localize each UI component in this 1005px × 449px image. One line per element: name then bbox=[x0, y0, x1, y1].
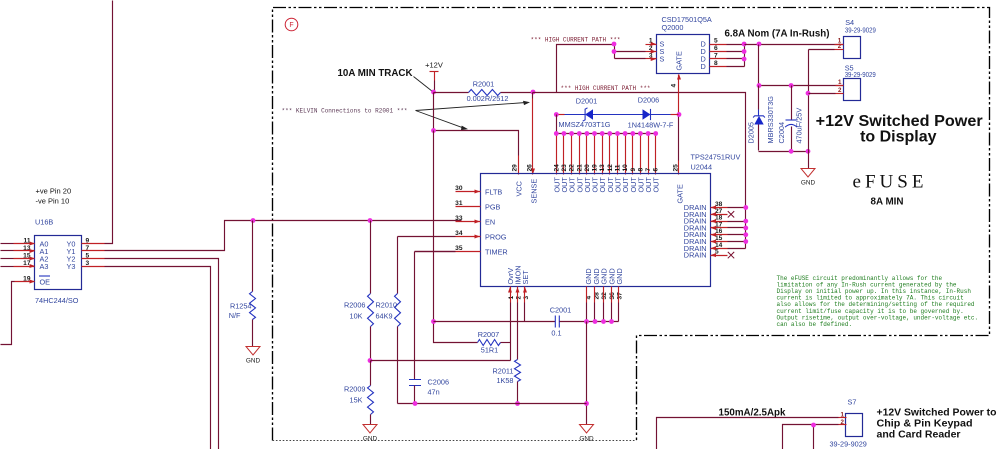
wire OUT bus rail bbox=[557, 115, 656, 134]
wire gate down to U2044 GATE pin bbox=[678, 115, 680, 175]
connector S4 39-29-9029 bbox=[838, 18, 876, 59]
wire high-current path R2001 to Q2000 drain bus riser bbox=[533, 93, 746, 249]
wire +12V kelvin down to R2007 / C2001 node bbox=[433, 131, 435, 322]
resistor R1254 N/F bbox=[229, 221, 256, 347]
svg-text:0.1: 0.1 bbox=[551, 329, 561, 338]
U2044 bottom pin numbers 1 2 3 bbox=[508, 296, 530, 300]
U2044 DRAIN pin numbers 38 27 18 17 16 15 14 5 bbox=[715, 201, 723, 256]
svg-text:29: 29 bbox=[512, 164, 519, 172]
svg-text:GND: GND bbox=[579, 436, 594, 443]
svg-text:FLTB: FLTB bbox=[485, 188, 502, 197]
wire OvrV pin down to R2007/R2006 node bbox=[510, 303, 512, 361]
wire inputs A0-A3 to left edge bbox=[1, 244, 14, 267]
U16B pin names bbox=[39, 239, 75, 286]
junction R2001/SENSE bbox=[531, 90, 536, 95]
wire switched 12V down to cap rail bbox=[758, 45, 760, 86]
wire S pins cluster to high-current vertical bbox=[557, 45, 646, 93]
wire GND rail down to ground bbox=[586, 322, 588, 425]
junction rail/D2005 bbox=[757, 83, 762, 88]
wire sense tap down to SENSE pin bbox=[531, 93, 535, 175]
IC U2044 TPS24751RUV body bbox=[481, 153, 741, 287]
svg-text:GND: GND bbox=[363, 436, 378, 443]
wire S4/S5 return to ground bbox=[808, 50, 810, 169]
svg-text:8: 8 bbox=[637, 168, 644, 172]
svg-text:470uF/25V: 470uF/25V bbox=[795, 108, 804, 144]
wire OE pin 19 to left edge bbox=[1, 282, 15, 345]
capacitor C2004 470uF/25V bbox=[777, 86, 804, 151]
wire drain to S4 connector bbox=[745, 44, 844, 46]
svg-text:-ve Pin 10: -ve Pin 10 bbox=[36, 197, 70, 206]
svg-text:37: 37 bbox=[617, 292, 624, 300]
capacitor C2006 47n bbox=[409, 252, 456, 404]
border frame of eFUSE block (dash-dot) bbox=[273, 8, 990, 441]
svg-text:D2001: D2001 bbox=[576, 97, 598, 106]
svg-text:39-29-9029: 39-29-9029 bbox=[845, 70, 876, 79]
no-connect X on DRAIN pin 5 bbox=[728, 252, 734, 258]
U16B output pin numbers 9 7 5 3 bbox=[86, 238, 90, 268]
junction gate/diode clamp bbox=[677, 112, 682, 117]
svg-text:Y3: Y3 bbox=[67, 262, 76, 271]
wire cap bottom rail bbox=[759, 151, 809, 153]
junction +12V/R2001 bbox=[431, 90, 436, 95]
svg-text:EN: EN bbox=[485, 218, 495, 227]
svg-text:R2010: R2010 bbox=[376, 301, 398, 310]
junction R2007/C2001/+12V tap bbox=[431, 319, 436, 324]
ground output section bbox=[801, 169, 815, 178]
svg-text:51R1: 51R1 bbox=[481, 346, 498, 355]
svg-text:2: 2 bbox=[838, 87, 842, 94]
svg-text:DRAIN: DRAIN bbox=[684, 251, 707, 260]
wire Y1 to EN net bbox=[105, 221, 462, 251]
svg-text:11: 11 bbox=[615, 164, 622, 171]
svg-text:R2006: R2006 bbox=[344, 301, 366, 310]
Q2000 pin names S S S GATE D D D D bbox=[660, 40, 706, 72]
wire bottom rail bbox=[398, 403, 587, 405]
U2044 left pin stubs bbox=[456, 190, 481, 252]
wire DRAIN rows to bus bbox=[728, 208, 746, 249]
resistor R2010 64K9 bbox=[376, 237, 401, 404]
capacitor C2001 0.1 bbox=[550, 306, 587, 338]
wire S7 feed bbox=[657, 418, 839, 449]
svg-text:13: 13 bbox=[599, 164, 606, 172]
svg-text:1N4148W-7-F: 1N4148W-7-F bbox=[628, 121, 674, 130]
wire PROG net from R2010 bbox=[398, 236, 456, 238]
junction drain out bbox=[757, 42, 762, 47]
U16B output pin stubs bbox=[82, 244, 105, 267]
svg-text:6.8A Nom (7A In-Rush): 6.8A Nom (7A In-Rush) bbox=[725, 28, 830, 40]
svg-text:R2007: R2007 bbox=[478, 330, 500, 339]
wire IMON pin down to R2011 bbox=[517, 303, 519, 360]
annotation KELVIN Connections to R2001 bbox=[282, 101, 531, 130]
svg-text:Q2000: Q2000 bbox=[662, 23, 684, 32]
Q2000 gate pin stub bbox=[677, 74, 681, 115]
svg-text:47n: 47n bbox=[428, 388, 440, 397]
svg-text:*** HIGH CURRENT PATH ***: *** HIGH CURRENT PATH *** bbox=[561, 85, 651, 92]
U2044 top pin numbers bbox=[512, 164, 680, 172]
wire SET pin down to C2001 bbox=[524, 303, 526, 322]
svg-text:TPS24751RUV: TPS24751RUV bbox=[691, 153, 741, 162]
svg-text:R2009: R2009 bbox=[344, 385, 366, 394]
svg-text:PGB: PGB bbox=[485, 203, 501, 212]
svg-text:GATE: GATE bbox=[675, 51, 684, 70]
svg-text:C2001: C2001 bbox=[550, 306, 572, 315]
resistor R2011 1K58 bbox=[493, 360, 521, 404]
junction rail/C2004 bbox=[789, 83, 794, 88]
junction OUT bus dots bbox=[554, 131, 658, 136]
ground below R1254 bbox=[246, 347, 260, 356]
diode D2001 MMSZ4703T1G (zener) bbox=[559, 97, 611, 130]
svg-text:eFUSE: eFUSE bbox=[853, 172, 924, 193]
svg-text:15K: 15K bbox=[350, 396, 363, 405]
Q2000 drain pin stubs bbox=[710, 45, 727, 67]
svg-text:*** KELVIN Connections to R200: *** KELVIN Connections to R2001 *** bbox=[282, 108, 408, 115]
svg-text:D2006: D2006 bbox=[638, 96, 660, 105]
svg-text:32: 32 bbox=[601, 292, 608, 300]
U2044 DRAIN pin stubs with arrows bbox=[711, 206, 728, 258]
svg-text:21: 21 bbox=[576, 164, 583, 172]
svg-text:1: 1 bbox=[508, 296, 515, 300]
wire S7 pin2 return bbox=[783, 425, 839, 449]
U2044 DRAIN pin names bbox=[684, 203, 707, 260]
resistor R2006 10K bbox=[344, 221, 374, 361]
svg-text:10: 10 bbox=[622, 164, 629, 172]
U2044 GND pin numbers 4 28 32 36 37 bbox=[586, 292, 624, 300]
junction R2011/bottom rail bbox=[515, 401, 520, 406]
svg-text:150mA/2.5Apk: 150mA/2.5Apk bbox=[719, 408, 786, 419]
svg-text:39-29-9029: 39-29-9029 bbox=[830, 440, 867, 449]
junction S7 return bbox=[811, 423, 816, 428]
U2044 top pin names VCC SENSE OUT GATE bbox=[515, 177, 685, 204]
ground below R2009 bbox=[363, 425, 377, 434]
svg-text:S7: S7 bbox=[848, 398, 857, 407]
svg-text:23: 23 bbox=[561, 164, 568, 172]
resistor R2009 15K bbox=[344, 361, 374, 425]
Q2000 drain pin numbers 5 6 7 8 bbox=[714, 38, 718, 68]
svg-text:26: 26 bbox=[527, 164, 534, 172]
junction bottom rail/GND stub bbox=[806, 149, 811, 154]
svg-text:R2011: R2011 bbox=[493, 367, 514, 376]
svg-text:19: 19 bbox=[592, 164, 599, 172]
transistor Q2000 CSD17501Q5A body bbox=[657, 15, 712, 73]
svg-text:U16B: U16B bbox=[35, 218, 53, 227]
svg-text:6: 6 bbox=[653, 168, 660, 172]
wire OUT pin columns bbox=[557, 134, 656, 175]
label 10A MIN TRACK with leader bbox=[338, 67, 433, 92]
junction C2006/bottom rail bbox=[413, 401, 418, 406]
svg-text:*** HIGH CURRENT PATH ***: *** HIGH CURRENT PATH *** bbox=[531, 37, 621, 44]
svg-text:OE: OE bbox=[40, 278, 51, 287]
wire S4 pin2 to return bbox=[809, 49, 835, 51]
U2044 bottom pin stubs bbox=[508, 287, 619, 303]
circle F marker bbox=[285, 18, 298, 31]
svg-text:+12V Switched Power to: +12V Switched Power to bbox=[877, 408, 997, 419]
junction drain riser dots bbox=[742, 42, 747, 62]
svg-text:GND: GND bbox=[615, 268, 624, 284]
svg-text:D2005: D2005 bbox=[747, 122, 756, 144]
svg-text:Chip & Pin Keypad: Chip & Pin Keypad bbox=[877, 419, 973, 430]
svg-text:8A MIN: 8A MIN bbox=[871, 196, 904, 208]
diode D2005 MBRS330T3G bbox=[747, 86, 775, 151]
wire cap top rail to S5 pin 1 bbox=[759, 85, 844, 87]
svg-text:36: 36 bbox=[609, 292, 616, 300]
wire S5 pin2 to return bbox=[809, 93, 836, 95]
svg-text:PROG: PROG bbox=[485, 233, 507, 242]
svg-text:R2001: R2001 bbox=[473, 80, 495, 89]
ground below U2044 GND pins bbox=[580, 425, 594, 434]
junction S cluster 2 bbox=[612, 49, 617, 54]
junction EN/R1254 bbox=[251, 218, 256, 223]
svg-text:C2004: C2004 bbox=[777, 122, 786, 144]
svg-text:S: S bbox=[660, 55, 665, 64]
svg-text:9: 9 bbox=[630, 168, 637, 172]
svg-text:12: 12 bbox=[607, 164, 614, 172]
junction R2006/R2009/wire bbox=[368, 358, 373, 363]
U2044 left pin numbers 30 31 33 34 35 bbox=[455, 185, 463, 252]
svg-text:25: 25 bbox=[673, 164, 680, 172]
wire SET row to C2001 bbox=[434, 321, 556, 323]
Q2000 source pin numbers 1 2 3 bbox=[649, 38, 653, 60]
svg-text:GATE: GATE bbox=[676, 184, 685, 203]
wire gate clamp chain bbox=[557, 114, 679, 116]
svg-text:to Display: to Display bbox=[860, 128, 937, 145]
label +12V Switched Power to Chip & Pin Keypad and Card Reader bbox=[877, 408, 997, 441]
wire node row R2006-R2007 bbox=[371, 360, 511, 362]
svg-text:and Card Reader: and Card Reader bbox=[877, 430, 961, 441]
junction GND rail dots bbox=[584, 319, 614, 324]
no-connect X on DRAIN pin 27 bbox=[728, 211, 734, 217]
svg-text:OUT: OUT bbox=[652, 177, 661, 193]
junction return/S5 pin2 bbox=[806, 91, 811, 96]
wire Y0 to top edge bbox=[105, 1, 113, 244]
U16B input pin numbers 11 13 15 17 19 bbox=[23, 238, 31, 283]
svg-text:F: F bbox=[289, 22, 293, 29]
svg-text:N/F: N/F bbox=[229, 311, 241, 320]
svg-text:24: 24 bbox=[553, 164, 560, 172]
S4 pin stubs bbox=[835, 45, 844, 50]
svg-text:5: 5 bbox=[714, 38, 718, 45]
connector S7 39-29-9029 bbox=[830, 398, 867, 449]
junction S cluster 1 bbox=[612, 42, 617, 47]
svg-text:0.002R/2512: 0.002R/2512 bbox=[467, 94, 509, 103]
wire GND pins rail bbox=[587, 303, 619, 322]
connector S5 39-29-9029 bbox=[838, 64, 876, 101]
svg-text:TIMER: TIMER bbox=[485, 248, 508, 257]
svg-text:10A MIN TRACK: 10A MIN TRACK bbox=[338, 67, 413, 79]
svg-text:20: 20 bbox=[584, 164, 591, 172]
svg-text:GND: GND bbox=[246, 358, 261, 365]
IC U16B 74HC244/SO body bbox=[35, 236, 82, 290]
junction bottom rail/C2004 bbox=[789, 149, 794, 154]
junction GND column/bottom rail bbox=[584, 401, 589, 406]
svg-text:7: 7 bbox=[645, 168, 652, 172]
wire TIMER net from C2006 bbox=[415, 251, 456, 253]
wire drain pins riser bbox=[727, 45, 745, 67]
svg-text:R1254: R1254 bbox=[230, 302, 252, 311]
wire Y2 down to bottom edge bbox=[105, 259, 219, 449]
svg-text:2: 2 bbox=[516, 296, 523, 300]
svg-text:39-29-9029: 39-29-9029 bbox=[845, 25, 876, 34]
svg-text:10K: 10K bbox=[350, 312, 363, 321]
svg-text:U2044: U2044 bbox=[691, 163, 713, 172]
svg-text:+12V: +12V bbox=[425, 61, 443, 70]
svg-text:VCC: VCC bbox=[515, 181, 524, 196]
svg-text:C2006: C2006 bbox=[428, 378, 450, 387]
S5 pin stubs bbox=[836, 86, 844, 94]
svg-text:SET: SET bbox=[521, 270, 530, 285]
junction EN/R2006 bbox=[368, 218, 373, 223]
svg-text:SENSE: SENSE bbox=[530, 179, 539, 204]
Q2000 source pin stubs bbox=[646, 42, 657, 61]
wire Y3 down to bottom edge bbox=[105, 267, 211, 449]
svg-text:GND: GND bbox=[801, 180, 816, 187]
svg-text:22: 22 bbox=[569, 164, 576, 172]
wire +12V to VCC (kelvin) bbox=[434, 93, 519, 175]
U2044 left pin names bbox=[485, 188, 508, 257]
svg-text:can also be fdefined.: can also be fdefined. bbox=[777, 321, 853, 328]
resistor R2007 51R1 bbox=[434, 322, 511, 355]
svg-text:64K9: 64K9 bbox=[376, 312, 393, 321]
diode D2006 1N4148W-7-F bbox=[628, 96, 674, 130]
U16B input pin stubs with arrows bbox=[14, 242, 36, 284]
resistor R2001 0.002R/2512 bbox=[434, 80, 533, 104]
svg-text:MMSZ4703T1G: MMSZ4703T1G bbox=[559, 120, 611, 129]
svg-text:4: 4 bbox=[671, 84, 678, 88]
dotted bottom border bbox=[273, 440, 637, 442]
svg-text:A3: A3 bbox=[40, 262, 49, 271]
svg-text:74HC244/SO: 74HC244/SO bbox=[35, 296, 79, 305]
junction DRAIN bus dots bbox=[743, 205, 748, 244]
junction kelvin VCC tap bbox=[431, 128, 436, 133]
junction clamp left bbox=[554, 112, 559, 117]
svg-text:D: D bbox=[701, 62, 706, 71]
U2044 GND pin names bbox=[584, 268, 624, 284]
+12V power symbol bbox=[425, 61, 443, 93]
label +12V Switched Power to Display bbox=[816, 113, 983, 145]
svg-text:+ve Pin 20: +ve Pin 20 bbox=[36, 187, 72, 196]
note eFUSE description (green) bbox=[777, 275, 979, 328]
svg-text:MBRS330T3G: MBRS330T3G bbox=[766, 96, 775, 144]
svg-text:1K58: 1K58 bbox=[496, 376, 513, 385]
S7 pin stubs bbox=[839, 418, 847, 425]
U2044 bottom pin names OvrV IMON SET bbox=[506, 265, 530, 284]
